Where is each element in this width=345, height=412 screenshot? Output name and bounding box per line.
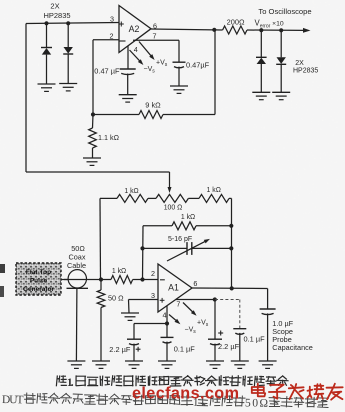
plus sign at A2 pin 3 input (119, 22, 124, 27)
ground below R2 (83, 158, 101, 165)
pin 6 label of A2 (153, 22, 157, 31)
label Verror x10 (255, 19, 284, 30)
resistor R7 1k (A1 feedback) (172, 222, 196, 230)
label +Vs at A1 (197, 320, 209, 329)
resistor R3 200 ohm (223, 26, 247, 34)
node junction dot A2 output (212, 28, 216, 32)
arrow onto potentiometer wiper (168, 187, 172, 193)
wire A1 feedback rail vertical (231, 198, 233, 288)
op-amp A2 triangle (119, 6, 151, 53)
wire false-summing row (100, 197, 232, 199)
resistor R8 50 ohm termination (97, 280, 105, 362)
capacitor C1 0.47uF (A2 -Vs decoupling) (120, 69, 136, 95)
pin 3 label of A2 (110, 15, 114, 24)
pulse generator box (16, 263, 61, 295)
pin 7 label of A2 (153, 32, 157, 41)
label 100 Ohm R5 (164, 205, 183, 212)
wire 9k feedback row (93, 114, 215, 116)
wire pin7 node dashes (215, 299, 240, 301)
label HP2835 (right diode pair) (293, 68, 318, 75)
node junction dot 9k/1.1k (91, 112, 95, 116)
diode CR3 (cathode-up clamp) (256, 30, 267, 92)
label -Vs at A2 (144, 66, 156, 75)
wire A2 output pin 6 (151, 29, 223, 30)
label 50 Ohm R8 (108, 293, 124, 302)
pin 4 label of A2 (134, 45, 138, 54)
plus sign of C5 (136, 347, 141, 352)
label -Vs at A1 (185, 327, 197, 336)
label 2.2 uF for C6 (218, 342, 240, 351)
wire top rail from left rail to A2 pin 3 (26, 23, 119, 24)
coax connector J1 circle (68, 270, 86, 288)
label 2.2 uF for C5 (109, 345, 131, 354)
label 1 kOhm R9 (112, 268, 126, 275)
label 0.47 uF for C1 (94, 67, 120, 76)
label 9 kOhm (145, 101, 161, 110)
wire mid rail vertical (142, 226, 145, 280)
arrow -Vs supply A1 (169, 315, 180, 325)
label 1 kOhm R4 (124, 188, 138, 195)
capacitor C8 10uF scope probe (260, 309, 276, 361)
arrow +Vs supply A2 (139, 42, 155, 61)
node junction dot pin4 (165, 321, 169, 325)
pin 2 label of A2 (110, 31, 114, 40)
watermark elecfans.com (132, 385, 239, 403)
caption line 1 (figure title in Chinese) (56, 376, 288, 389)
wire to oscilloscope (247, 29, 304, 31)
wire pulse generator to coax (61, 279, 68, 281)
label 1 kOhm R7 (181, 214, 195, 221)
wire row2 (143, 225, 232, 227)
label 1.1 kOhm (98, 133, 120, 142)
wire pin4 node to C5 (134, 324, 167, 340)
label 10 uF scope probe line1 (272, 319, 293, 328)
ground below diode CR2 (59, 84, 77, 91)
label coax line2 (68, 253, 85, 262)
plus sign at A1 pin 3 (160, 298, 165, 303)
wire through coax to input node (64, 279, 111, 281)
wire A2 pin 2 input (93, 39, 119, 41)
caption line 2 (Chinese note) (2, 392, 328, 410)
ground below C4 (158, 361, 176, 368)
diode CR2 (anode-up clamp) (63, 23, 73, 83)
ground below C2 (170, 86, 188, 93)
capacitor C3 5-16pF trimmer (167, 239, 210, 261)
wire input node vertical (99, 198, 102, 279)
resistor R9 1k input (111, 276, 133, 284)
ground below C5 (125, 361, 143, 368)
label scope probe line2 (272, 327, 293, 336)
wire A2 pin2 to summing node vertical (92, 40, 94, 115)
ground below C1 (119, 95, 137, 102)
label +Vs at A2 (156, 60, 168, 69)
ground below diode CR3 (252, 92, 270, 99)
scan artifact left edge 1 (0, 264, 5, 273)
wire A1 pin 3 input (129, 299, 159, 301)
label 0.1 uF for C7 (244, 335, 266, 344)
node junction dot diode CR4 top (279, 28, 283, 32)
wire A1 output to probe cap (267, 289, 269, 310)
pin 3 label of A1 (151, 291, 155, 300)
coax shield bar (67, 287, 89, 289)
capacitor C6 2.2uF (A1 +Vs bulk) (208, 300, 222, 362)
arrow head to oscilloscope (303, 28, 311, 33)
wire A1 pin 2 input (133, 279, 158, 281)
resistor R1 9k zigzag (139, 111, 163, 119)
label 0.1 uF for C4 (174, 345, 196, 354)
wire A1 output pin 6 (192, 287, 268, 290)
wire coax shield drop (75, 288, 78, 361)
op-amp A1 triangle (158, 264, 192, 312)
node junction dot mid rail pin2 (140, 277, 144, 281)
wire left rail vertical (25, 24, 27, 173)
ground below diode CR4 (272, 92, 290, 99)
label HP2835 (top-left diode pair) (43, 11, 70, 20)
ground below C7 (231, 361, 249, 368)
node junction dot diode CR3 top (259, 28, 263, 32)
arrow +Vs supply A1 (183, 303, 197, 316)
capacitor C4 0.1uF (under A1 pin4) (161, 324, 174, 362)
node junction dot diode CR1 top (44, 21, 48, 25)
pin 6 label of A1 (193, 279, 197, 288)
wire row3 (143, 247, 232, 249)
label 5-16 pF (168, 236, 192, 243)
pin 4 label of A1 (163, 311, 167, 320)
label coax line3 (67, 261, 86, 270)
wire A1 pin 7 supply line (176, 299, 215, 301)
plus sign of C6 (218, 331, 223, 336)
ground at A1 pin 3 (121, 313, 139, 320)
wire A2 pin 4 drop (127, 46, 129, 69)
label 2X (right diode pair quantity) (295, 60, 304, 67)
node junction dot right rail row3 (229, 246, 233, 250)
capacitor C5 2.2uF (A1 -Vs bulk) (127, 339, 141, 361)
scan artifact left edge 2 (0, 286, 4, 297)
label 2X (top-left diode pair quantity) (50, 2, 59, 11)
label 1 kOhm R6 (207, 187, 221, 194)
resistor R2 1.1k vertical (89, 115, 97, 158)
watermark Chinese brand characters (252, 384, 343, 400)
pin 7 label of A1 (176, 299, 180, 308)
minus sign at A1 pin 2 (160, 279, 165, 281)
ground below diode CR1 (38, 84, 56, 91)
capacitor C2 0.47uF (A2 +Vs decoupling) (173, 40, 186, 86)
ground below C8 (259, 361, 277, 368)
label 50 Ohm coax line1 (71, 244, 85, 253)
node junction dot input node (99, 277, 103, 281)
potentiometer R5 100 ohm (156, 194, 188, 202)
resistor R6 1k (row1 right) (199, 194, 229, 202)
ground below R8 (92, 361, 110, 368)
label scope probe line4 (272, 343, 313, 352)
wire wiper feed from left rail (26, 172, 170, 188)
wire A1 pin3 ground stub (128, 300, 131, 314)
node junction dot mid rail row3 (140, 246, 144, 250)
wire A2 pin 7 supply line (133, 39, 179, 41)
node junction dot A1 output (230, 286, 234, 290)
node junction dot diode CR2 top (66, 21, 70, 25)
pin 2 label of A1 (151, 269, 155, 278)
wire A1 pin 4 drop (166, 306, 168, 324)
diode CR4 (anode-up clamp) (276, 30, 286, 92)
ground below C6 (206, 361, 224, 368)
capacitor C7 0.1uF (A1 +Vs hf) (233, 300, 246, 362)
ground below coax shield (67, 361, 85, 368)
wire A2 feedback rail vertical (214, 30, 216, 115)
node junction dot right rail row2 (229, 224, 233, 228)
label scope probe line3 (272, 335, 291, 344)
resistor R4 1k (row1 left) (117, 194, 148, 202)
arrow -Vs supply A2 (130, 50, 144, 65)
label 0.47 uF for C2 (186, 61, 210, 70)
label To Oscilloscope (258, 7, 311, 16)
diode CR1 (cathode-up clamp) (41, 23, 52, 84)
minus sign at A2 pin 2 input (120, 40, 126, 42)
node junction dot pin7 rail (213, 297, 217, 301)
label 200 Ohm (227, 18, 245, 27)
